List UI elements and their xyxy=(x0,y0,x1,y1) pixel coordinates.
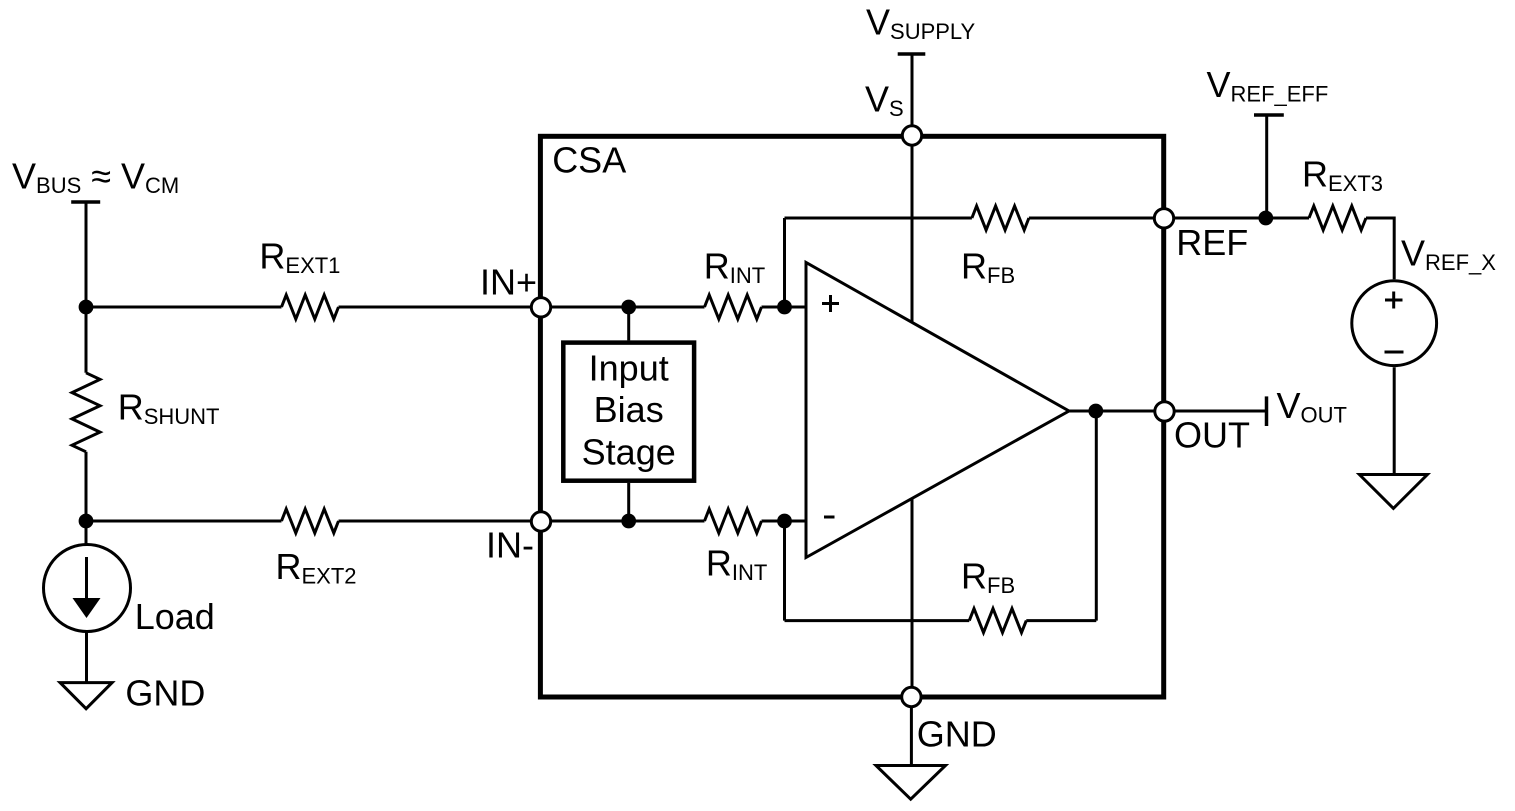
terminal IN- xyxy=(531,512,550,531)
resistor REXT2 xyxy=(282,509,339,533)
resistor RSHUNT xyxy=(72,373,100,452)
op-amp + pin mark xyxy=(822,302,839,305)
svg-text:Load: Load xyxy=(135,596,215,637)
node VBUS power bar xyxy=(71,200,100,204)
svg-text:REF: REF xyxy=(1176,222,1248,263)
wire GND terminal to ground symbol xyxy=(910,697,913,766)
wire REF terminal to node C xyxy=(1164,217,1309,220)
wire node A to REXT1 xyxy=(86,306,282,309)
junction opamp - input xyxy=(777,514,792,529)
wire load node B to load source xyxy=(85,521,88,544)
svg-text:Bias: Bias xyxy=(594,389,664,430)
wire feedback riser down from - node xyxy=(783,521,786,621)
terminal OUT xyxy=(1155,402,1174,421)
junction node A xyxy=(79,300,94,315)
op-amp - pin mark xyxy=(824,516,835,519)
wire VREF_X source to ground xyxy=(1393,367,1396,474)
wire RFB lower to output riser xyxy=(1026,619,1096,622)
resistor RFB upper xyxy=(972,206,1029,230)
wire REXT1 to IN+ and opamp xyxy=(339,306,705,309)
ground symbol right xyxy=(1359,475,1427,509)
wire supply rail VS to GND xyxy=(911,54,914,697)
node VOUT tick xyxy=(1265,396,1269,426)
Input Bias Stage box xyxy=(563,343,694,481)
wire VREF_EFF to node C xyxy=(1265,115,1268,218)
svg-text:CSA: CSA xyxy=(552,140,626,181)
wire node B to REXT2 xyxy=(86,520,282,523)
wire REXT3 to VREF_X source xyxy=(1366,218,1394,279)
op-amp U1 xyxy=(806,263,1069,558)
resistor REXT3 xyxy=(1309,206,1366,230)
wire RSHUNT to node B xyxy=(85,452,88,544)
wire node A to RSHUNT xyxy=(85,307,88,373)
resistor RINT upper xyxy=(705,295,762,319)
junction output node xyxy=(1088,404,1103,419)
current source Load xyxy=(44,545,131,632)
terminal VS xyxy=(902,126,921,145)
svg-text:Stage: Stage xyxy=(582,432,676,473)
CSA box xyxy=(540,136,1163,697)
junction bias tap upper xyxy=(621,300,636,315)
wire RINT to opamp + input xyxy=(762,306,807,309)
svg-text:GND: GND xyxy=(125,672,205,713)
wire opamp output to OUT terminal xyxy=(1069,410,1165,413)
svg-text:GND: GND xyxy=(917,714,997,755)
wire REXT2 to IN- and opamp xyxy=(339,520,705,523)
resistor RINT lower xyxy=(705,509,762,533)
ground symbol left xyxy=(60,683,112,709)
terminal GND xyxy=(902,687,921,706)
wire RFB to REF terminal xyxy=(1029,217,1164,220)
svg-text:OUT: OUT xyxy=(1174,415,1250,456)
wire RINT to opamp - input xyxy=(762,520,807,523)
wire VREF_EFF bar xyxy=(1254,113,1284,117)
wire top feedback horizontal xyxy=(785,217,972,220)
resistor RFB lower xyxy=(969,609,1026,633)
junction node B xyxy=(79,514,94,529)
terminal REF xyxy=(1154,209,1173,228)
svg-text:Input: Input xyxy=(589,348,669,389)
wire load source to ground xyxy=(85,632,88,683)
junction node C xyxy=(1258,211,1273,226)
resistor REXT1 xyxy=(282,295,339,319)
svg-text:IN+: IN+ xyxy=(480,262,537,303)
terminal IN+ xyxy=(531,298,550,317)
wire OUT terminal to VOUT tick xyxy=(1165,410,1266,413)
wire VBUS bar to node A xyxy=(85,202,88,307)
ground symbol CSA xyxy=(876,766,946,800)
svg-text:IN-: IN- xyxy=(486,525,534,566)
junction bias tap lower xyxy=(621,514,636,529)
wire bias stage top tap xyxy=(627,307,630,340)
wire bottom feedback horizontal xyxy=(785,619,970,622)
wire output riser xyxy=(1095,411,1098,621)
wire VSUPPLY bar xyxy=(898,52,926,56)
junction opamp + input xyxy=(777,300,792,315)
voltage source VREF_X xyxy=(1352,281,1437,366)
wire bias stage bottom tap xyxy=(627,483,630,521)
wire feedback riser up from + node xyxy=(783,218,786,307)
